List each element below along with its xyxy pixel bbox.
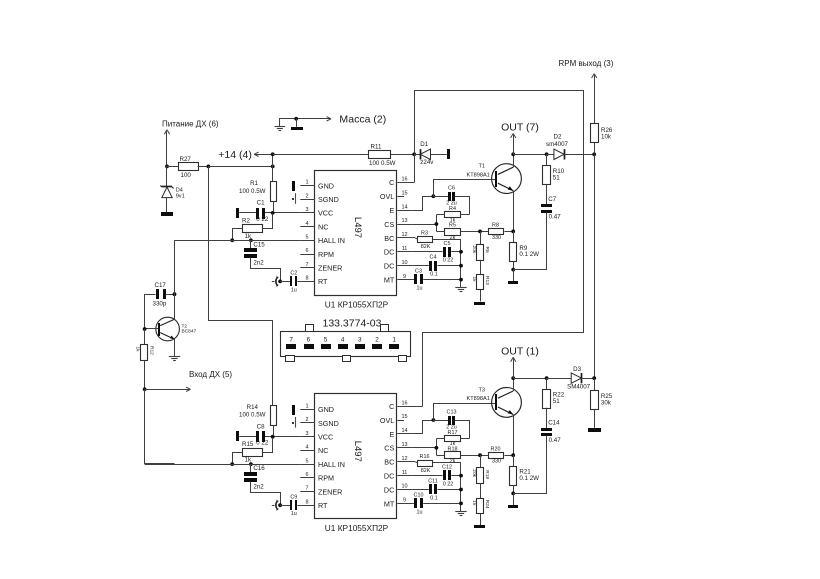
wire R1 top leg bbox=[272, 154, 274, 181]
pin 16 C bbox=[397, 182, 414, 184]
pin 12 BC bbox=[397, 461, 412, 463]
svg-text:1: 1 bbox=[305, 404, 308, 410]
svg-text:11: 11 bbox=[402, 470, 408, 476]
resistor R20 330 bbox=[461, 455, 489, 457]
svg-text:0 22: 0 22 bbox=[443, 482, 454, 488]
svg-text:330: 330 bbox=[492, 459, 501, 465]
pin 15 OVL bbox=[397, 420, 404, 422]
pin 16 C bbox=[397, 406, 422, 408]
pin 10 DC bbox=[397, 489, 412, 491]
capacitor C11 0.1 on pin10 bbox=[412, 489, 429, 491]
wire E-node riser to transistor base line bbox=[434, 404, 496, 421]
wire pin14 E to E-node bbox=[413, 421, 434, 434]
ground symbol Масса bbox=[280, 119, 331, 127]
connector blade pin 5 bbox=[321, 344, 331, 349]
svg-text:R12: R12 bbox=[148, 346, 154, 355]
svg-text:0.1 2W: 0.1 2W bbox=[519, 251, 539, 258]
wire HALL IN row bbox=[145, 464, 301, 466]
svg-text:C13: C13 bbox=[447, 409, 457, 415]
svg-text:16: 16 bbox=[401, 177, 407, 183]
blade contact below R9 bbox=[513, 493, 515, 505]
svg-text:C3: C3 bbox=[415, 269, 422, 275]
svg-text:10: 10 bbox=[401, 260, 407, 266]
svg-text:SGND: SGND bbox=[318, 195, 339, 204]
resistor R18 2k bbox=[436, 455, 444, 457]
svg-text:2: 2 bbox=[305, 193, 308, 199]
svg-text:C15: C15 bbox=[253, 241, 265, 248]
svg-text:C9: C9 bbox=[290, 494, 297, 500]
svg-text:R27: R27 bbox=[180, 156, 192, 163]
svg-text:14: 14 bbox=[401, 428, 407, 434]
svg-text:0.1: 0.1 bbox=[430, 495, 438, 501]
svg-text:E: E bbox=[390, 206, 395, 215]
svg-text:8: 8 bbox=[305, 499, 308, 505]
connector blade pin 3 bbox=[355, 344, 365, 349]
svg-text:C: C bbox=[389, 178, 394, 187]
svg-text:OVL: OVL bbox=[380, 192, 394, 201]
ground earth below T2 bbox=[169, 356, 180, 358]
op-amp U1 КР1055ХП2Р IC body L497 bbox=[315, 171, 397, 296]
resistor R21 0.1 2W bbox=[513, 455, 515, 466]
pin 3 VCC bbox=[300, 436, 315, 438]
resistor R2 1k bbox=[243, 225, 263, 233]
capacitor C4 0.1 on pin10 bbox=[412, 265, 429, 267]
transistor T2 BC847 bbox=[156, 317, 180, 341]
blade contact at VCC filter bbox=[236, 431, 239, 441]
wire BC to capacitor rail bbox=[433, 240, 461, 288]
svg-text:KT898A1: KT898A1 bbox=[467, 396, 490, 402]
diode D1 z24v bbox=[414, 154, 420, 156]
svg-text:0.47: 0.47 bbox=[549, 437, 562, 444]
svg-text:1u: 1u bbox=[417, 286, 423, 292]
pin 5 HALL IN bbox=[300, 464, 315, 466]
diode D2 sm4007 bbox=[547, 154, 554, 156]
pin 12 BC bbox=[397, 237, 412, 239]
pin 6 RPM bbox=[300, 254, 315, 256]
wire T2 collector bbox=[174, 294, 176, 319]
svg-text:NC: NC bbox=[318, 222, 328, 231]
svg-text:1k: 1k bbox=[471, 277, 477, 283]
connector blade pin 1 bbox=[389, 344, 399, 349]
svg-text:15: 15 bbox=[401, 190, 407, 196]
wire C7 to emitter ground node bbox=[514, 213, 547, 270]
connector blade pin 2 bbox=[372, 344, 382, 349]
diode D3 SM4007 bbox=[547, 378, 572, 380]
svg-text:BC847: BC847 bbox=[182, 329, 197, 335]
pin 8 RT bbox=[300, 505, 315, 507]
wire RPM line down to lower OUT node bbox=[594, 154, 596, 378]
wire C17 right to collector bbox=[165, 294, 174, 296]
pin 5 HALL IN bbox=[300, 240, 315, 242]
svg-text:RT: RT bbox=[318, 277, 328, 286]
resistor R8 330 bbox=[461, 231, 489, 233]
wire HALL IN drop to T2 collector bbox=[174, 240, 176, 294]
svg-text:R2: R2 bbox=[242, 217, 250, 224]
blade contact on pin 1 GND bbox=[292, 405, 295, 415]
svg-text:330p: 330p bbox=[153, 301, 167, 308]
resistor R24 divider chain bottom bbox=[480, 484, 482, 499]
wire pin13 CS row bbox=[412, 224, 436, 226]
svg-text:C: C bbox=[389, 402, 394, 411]
svg-text:R20: R20 bbox=[491, 446, 501, 452]
capacitor C3 1u on pin9 MT bbox=[412, 279, 414, 281]
connector blade pin 4 bbox=[338, 344, 348, 349]
svg-text:7: 7 bbox=[305, 262, 308, 268]
svg-text:1u: 1u bbox=[291, 287, 297, 293]
wire frame loop C-pin to lower half bbox=[415, 91, 584, 407]
wire OUT row bbox=[513, 154, 546, 156]
svg-text:7: 7 bbox=[289, 337, 293, 344]
pin 11 DC bbox=[397, 251, 412, 253]
pin 13 CS bbox=[397, 447, 412, 449]
svg-text:R13: R13 bbox=[484, 276, 490, 285]
node D2 cathode RPM line bbox=[592, 152, 596, 156]
resistor R6 divider chain top bbox=[480, 231, 482, 244]
resistor R13 divider chain bottom bbox=[480, 260, 482, 275]
wire T2 base bbox=[145, 328, 159, 330]
resistor R17 1k bbox=[445, 436, 461, 442]
svg-text:NC: NC bbox=[318, 446, 328, 455]
svg-text:4: 4 bbox=[305, 445, 308, 451]
svg-text:2: 2 bbox=[305, 417, 308, 423]
pin 14 E bbox=[397, 210, 412, 212]
capacitor C2 1u on RT bbox=[280, 281, 290, 283]
svg-text:Масса (2): Масса (2) bbox=[339, 113, 386, 125]
pin 3 VCC bbox=[300, 212, 315, 214]
wire R4 left leg to CS bbox=[436, 438, 445, 440]
wire OUT row bbox=[513, 378, 546, 380]
pin 14 E bbox=[397, 433, 412, 435]
wire RPM output bbox=[592, 74, 595, 78]
svg-text:HALL IN: HALL IN bbox=[318, 460, 345, 469]
svg-text:16: 16 bbox=[401, 400, 407, 406]
svg-text:R4: R4 bbox=[449, 206, 456, 212]
wire VCC pin3 row bbox=[239, 436, 256, 438]
resistor R25 30k bbox=[594, 378, 596, 390]
svg-text:9: 9 bbox=[403, 498, 406, 504]
svg-text:C17: C17 bbox=[155, 282, 167, 289]
svg-text:R11: R11 bbox=[371, 143, 382, 150]
svg-text:C10: C10 bbox=[414, 492, 424, 498]
wire C6 right leg bbox=[455, 421, 470, 439]
svg-text:2n2: 2n2 bbox=[253, 483, 264, 490]
contact symbol at RT bbox=[276, 500, 278, 511]
resistor R10 51 bbox=[546, 154, 548, 165]
svg-text:R17: R17 bbox=[448, 430, 458, 436]
svg-text:10: 10 bbox=[401, 484, 407, 490]
capacitor C8 0.22 on VCC bbox=[256, 431, 259, 442]
resistor R15 1k bbox=[243, 449, 263, 457]
svg-text:Вход ДХ (5): Вход ДХ (5) bbox=[189, 370, 232, 379]
capacitor C5 0.22 on pin11 bbox=[412, 251, 442, 253]
svg-text:KT898A1: KT898A1 bbox=[467, 172, 490, 178]
svg-text:OUT (1): OUT (1) bbox=[501, 346, 539, 358]
svg-text:MT: MT bbox=[384, 499, 395, 508]
svg-text:51: 51 bbox=[553, 174, 560, 181]
svg-text:0.1: 0.1 bbox=[430, 272, 438, 278]
svg-text:GND: GND bbox=[318, 405, 334, 414]
capacitor C10 1u on pin9 MT bbox=[412, 503, 414, 505]
wire C15 to RT node bbox=[251, 482, 281, 506]
capacitor C12 0.22 on pin11 bbox=[412, 475, 442, 477]
svg-text:CS: CS bbox=[384, 220, 394, 229]
svg-text:R5: R5 bbox=[449, 223, 456, 229]
resistor R5 2k bbox=[436, 231, 444, 233]
wire R4 left leg to CS bbox=[436, 214, 445, 216]
node D3 cathode to R25 bbox=[592, 376, 596, 380]
ground earth below capacitor rail bbox=[455, 511, 466, 513]
svg-text:15: 15 bbox=[401, 414, 407, 420]
svg-text:C1: C1 bbox=[257, 200, 265, 207]
wire R2 right leg to VCC node bbox=[263, 214, 273, 229]
svg-text:3: 3 bbox=[305, 431, 308, 437]
svg-text:RPM: RPM bbox=[318, 474, 334, 483]
blade contact below R9 bbox=[513, 270, 515, 282]
blade contact below divider bbox=[480, 514, 482, 526]
svg-text:C6: C6 bbox=[448, 186, 455, 192]
svg-text:13: 13 bbox=[401, 218, 407, 224]
wire HALL IN row bbox=[175, 240, 301, 242]
svg-text:12: 12 bbox=[401, 456, 407, 462]
wire C7 to emitter ground node bbox=[514, 436, 547, 494]
zener diode D4 9v1 bbox=[166, 166, 168, 187]
svg-text:5: 5 bbox=[305, 458, 308, 464]
svg-text:VCC: VCC bbox=[318, 433, 333, 442]
svg-text:0 22: 0 22 bbox=[443, 258, 454, 264]
connector 133.3774-03 body bbox=[281, 332, 411, 357]
resistor R3 82K on BC bbox=[412, 237, 415, 239]
svg-text:RPM: RPM bbox=[318, 250, 334, 259]
svg-text:9: 9 bbox=[403, 274, 406, 280]
svg-text:MT: MT bbox=[384, 276, 395, 285]
svg-text:11: 11 bbox=[402, 246, 408, 252]
svg-text:330: 330 bbox=[492, 235, 501, 241]
svg-text:4: 4 bbox=[341, 337, 345, 344]
svg-text:ZENER: ZENER bbox=[318, 264, 342, 273]
pin 11 DC bbox=[397, 475, 412, 477]
svg-text:R6: R6 bbox=[484, 247, 490, 253]
svg-text:C12: C12 bbox=[442, 465, 452, 471]
wire R2 right leg to VCC node bbox=[263, 438, 273, 453]
svg-text:D1: D1 bbox=[420, 141, 428, 148]
pin 9 MT bbox=[397, 503, 412, 505]
svg-text:VCC: VCC bbox=[318, 209, 333, 218]
op-amp U1 КР1055ХП2Р IC body L497 bbox=[315, 394, 397, 519]
transistor T1 KT898A1 bbox=[492, 164, 522, 194]
pin 9 MT bbox=[397, 279, 412, 281]
resistor R16 82K on BC bbox=[412, 461, 415, 463]
svg-text:OVL: OVL bbox=[380, 416, 394, 425]
resistor R12 vertical on base rail bbox=[144, 329, 146, 345]
blade contact at VCC filter bbox=[236, 208, 239, 218]
resistor R27 100 bbox=[167, 166, 178, 168]
svg-text:SM4007: SM4007 bbox=[567, 384, 591, 391]
pin 10 DC bbox=[397, 265, 412, 267]
svg-text:E: E bbox=[390, 430, 395, 439]
svg-text:5: 5 bbox=[305, 235, 308, 241]
ground earth below capacitor rail bbox=[455, 287, 466, 289]
wire E-node riser to transistor base line bbox=[434, 180, 496, 197]
capacitor C13 2.2u bbox=[433, 420, 448, 422]
svg-text:T1: T1 bbox=[479, 164, 486, 170]
wire VCC pin3 row bbox=[239, 212, 256, 214]
svg-text:BC: BC bbox=[384, 458, 394, 467]
svg-text:82K: 82K bbox=[421, 468, 431, 474]
resistor R4 1k bbox=[445, 212, 461, 218]
pin 6 RPM bbox=[300, 477, 315, 479]
wire C17 left to base rail bbox=[145, 295, 156, 329]
svg-text:51: 51 bbox=[553, 398, 560, 405]
svg-text:U1 КР1055ХП2Р: U1 КР1055ХП2Р bbox=[325, 523, 389, 533]
svg-text:C7: C7 bbox=[548, 196, 556, 203]
svg-text:D2: D2 bbox=[554, 133, 562, 140]
wire BC to capacitor rail bbox=[433, 463, 461, 512]
wire hall input arrow bbox=[143, 387, 147, 391]
resistor R26 10k bbox=[594, 143, 596, 154]
wire collector riser to OUT node bbox=[513, 154, 515, 167]
wire R27 to R1 node bbox=[208, 166, 272, 168]
pin 7 ZENER bbox=[300, 267, 315, 269]
svg-text:R3: R3 bbox=[421, 230, 428, 236]
svg-text:DC: DC bbox=[384, 262, 394, 271]
svg-text:L497: L497 bbox=[352, 217, 363, 238]
svg-text:2: 2 bbox=[375, 337, 379, 344]
resistor R22 51 bbox=[546, 378, 548, 389]
blade contact below R25 bbox=[594, 409, 596, 428]
svg-text:C2: C2 bbox=[290, 271, 297, 277]
svg-text:RT: RT bbox=[318, 501, 328, 510]
wire emitter to R9 node bbox=[513, 415, 515, 456]
resistor R14 100 0.5W vertical bbox=[271, 406, 277, 426]
blade contact below D4 bbox=[166, 198, 168, 213]
svg-text:8: 8 bbox=[305, 276, 308, 282]
svg-text:Питание ДХ (6): Питание ДХ (6) bbox=[162, 120, 219, 129]
pin 4 NC bbox=[300, 450, 315, 452]
svg-text:100 0.5W: 100 0.5W bbox=[369, 160, 396, 167]
svg-text:1u: 1u bbox=[417, 509, 423, 515]
svg-text:14: 14 bbox=[401, 204, 407, 210]
node VCC junction bbox=[271, 211, 275, 215]
pin 2 SGND bbox=[300, 422, 315, 424]
svg-text:C11: C11 bbox=[428, 479, 438, 485]
svg-text:R19: R19 bbox=[484, 470, 490, 479]
svg-text:1k: 1k bbox=[134, 347, 140, 353]
pin 15 OVL bbox=[397, 196, 404, 198]
connector blade pin 6 bbox=[304, 344, 314, 349]
svg-text:0 22: 0 22 bbox=[256, 440, 269, 447]
contact symbol on pin 2 SGND bbox=[295, 193, 297, 204]
svg-text:C16: C16 bbox=[253, 465, 265, 472]
svg-text:CS: CS bbox=[384, 444, 394, 453]
svg-text:9v1: 9v1 bbox=[176, 194, 185, 200]
svg-text:R15: R15 bbox=[242, 441, 254, 448]
svg-text:C8: C8 bbox=[257, 423, 265, 430]
svg-text:DC: DC bbox=[384, 248, 394, 257]
svg-text:4: 4 bbox=[305, 221, 308, 227]
svg-text:1u: 1u bbox=[291, 511, 297, 517]
blade contact +14 feed bbox=[447, 149, 450, 159]
contact symbol on pin 2 SGND bbox=[295, 417, 297, 428]
transistor T3 KT898A1 bbox=[492, 388, 522, 418]
svg-text:82K: 82K bbox=[421, 244, 431, 250]
wire base rail down to lower HALL IN bbox=[145, 390, 175, 464]
capacitor C16 2n2 on HALL IN bbox=[249, 462, 253, 466]
pin 13 CS bbox=[397, 224, 412, 226]
svg-text:C14: C14 bbox=[548, 420, 560, 427]
svg-text:12: 12 bbox=[401, 232, 407, 238]
svg-text:0.47: 0.47 bbox=[549, 213, 562, 220]
svg-text:30k: 30k bbox=[601, 400, 612, 407]
capacitor C7 0.47 bbox=[546, 184, 548, 204]
resistor R9 0.1 2W bbox=[513, 231, 515, 242]
contact symbol at RT bbox=[276, 276, 278, 287]
svg-text:DC: DC bbox=[384, 485, 394, 494]
wire T2 emitter to ground bbox=[174, 339, 176, 356]
capacitor C6 2.2u bbox=[433, 196, 448, 198]
svg-text:6: 6 bbox=[307, 337, 311, 344]
wire pin14 E to E-node bbox=[413, 197, 434, 211]
svg-text:6: 6 bbox=[305, 472, 308, 478]
wire R2 left leg to HALL node bbox=[233, 229, 243, 241]
pin 7 ZENER bbox=[300, 491, 315, 493]
svg-text:100: 100 bbox=[181, 172, 192, 179]
svg-text:GND: GND bbox=[318, 181, 334, 190]
svg-text:2n2: 2n2 bbox=[253, 260, 264, 267]
svg-text:20k: 20k bbox=[471, 246, 477, 254]
svg-text:3: 3 bbox=[305, 207, 308, 213]
svg-text:100 0.5W: 100 0.5W bbox=[239, 188, 266, 195]
wire +14 rail bbox=[254, 152, 258, 154]
svg-text:1: 1 bbox=[392, 337, 396, 344]
svg-text:D3: D3 bbox=[573, 366, 581, 373]
connector bottom tabs bbox=[286, 356, 295, 362]
svg-text:C4: C4 bbox=[430, 255, 437, 261]
resistor R19 divider chain top bbox=[480, 455, 482, 468]
svg-text:7: 7 bbox=[305, 486, 308, 492]
svg-text:R16: R16 bbox=[420, 454, 430, 460]
svg-text:5: 5 bbox=[324, 337, 328, 344]
blade contact below divider bbox=[480, 290, 482, 302]
svg-text:OUT (7): OUT (7) bbox=[501, 122, 539, 134]
connector top tabs bbox=[306, 325, 314, 332]
resistor R11 100 0.5W bbox=[273, 154, 369, 156]
svg-text:+14 (4): +14 (4) bbox=[218, 149, 252, 161]
svg-text:T3: T3 bbox=[479, 387, 486, 393]
wire C6 right leg bbox=[455, 197, 470, 215]
svg-text:1k: 1k bbox=[471, 500, 477, 506]
wire pin13 CS row bbox=[412, 447, 436, 449]
connector blade pin 7 bbox=[286, 344, 296, 349]
svg-text:SGND: SGND bbox=[318, 419, 339, 428]
pin 1 GND bbox=[300, 409, 315, 411]
capacitor C15 2n2 on HALL IN bbox=[249, 238, 253, 242]
svg-text:ZENER: ZENER bbox=[318, 487, 342, 496]
svg-text:BC: BC bbox=[384, 234, 394, 243]
svg-text:C5: C5 bbox=[444, 241, 451, 247]
svg-text:RPM выход (3): RPM выход (3) bbox=[559, 59, 614, 68]
node VCC junction bbox=[271, 435, 275, 439]
pin 8 RT bbox=[300, 281, 315, 283]
wire supply arrow bbox=[164, 130, 167, 134]
pin 1 GND bbox=[300, 185, 315, 187]
svg-text:sm4007: sm4007 bbox=[546, 141, 569, 148]
pin 4 NC bbox=[300, 226, 315, 228]
svg-text:13: 13 bbox=[401, 442, 407, 448]
capacitor C17 330p bbox=[156, 289, 159, 299]
svg-text:DC: DC bbox=[384, 472, 394, 481]
svg-text:100 0.5W: 100 0.5W bbox=[239, 412, 266, 419]
capacitor C9 1u on RT bbox=[280, 505, 290, 507]
